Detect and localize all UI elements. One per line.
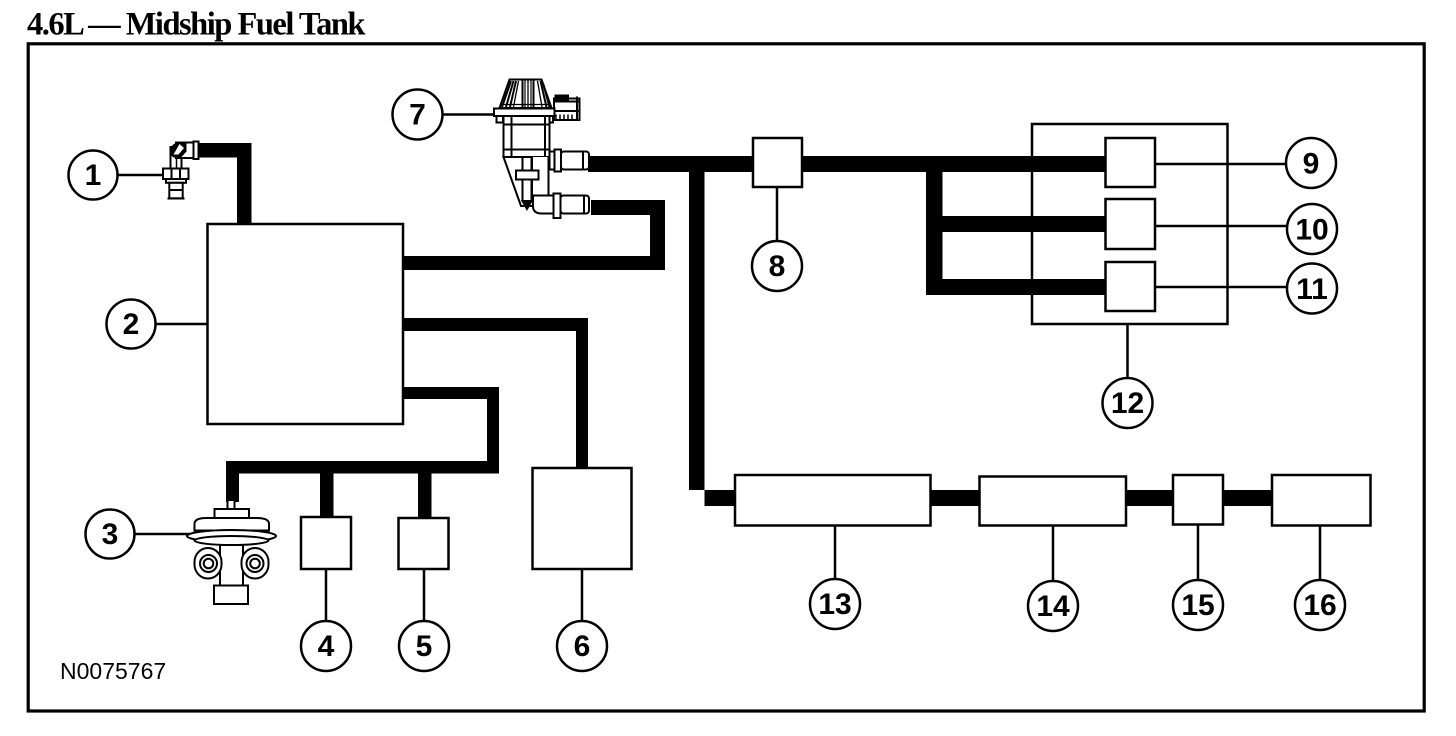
callout circle 2 xyxy=(107,300,156,349)
fuel tank 2 xyxy=(208,224,404,424)
callout circle 13 xyxy=(810,579,860,629)
callout circle 6 xyxy=(557,621,607,671)
hose: drop to component 3 xyxy=(226,461,239,502)
svg-text:7: 7 xyxy=(409,99,426,132)
callout circle 4 xyxy=(301,621,351,671)
callout circle 9 xyxy=(1286,138,1336,188)
hose: box 14 to box 15 xyxy=(1125,490,1174,506)
leader line 2 xyxy=(155,323,207,326)
callout circle 5 xyxy=(399,621,449,671)
hose: canister vent valve upper outlet main line to box 9 xyxy=(588,156,1106,172)
leader line 4 xyxy=(325,569,328,622)
callout circle 3 xyxy=(86,510,135,559)
box 6 xyxy=(533,468,632,569)
svg-text:6: 6 xyxy=(574,630,591,663)
svg-text:15: 15 xyxy=(1181,589,1214,622)
svg-text:1: 1 xyxy=(85,159,102,192)
hose: drop to box 5 xyxy=(418,470,432,518)
box 10 xyxy=(1106,199,1156,249)
svg-text:5: 5 xyxy=(416,630,433,663)
hose: box 15 to box 16 xyxy=(1222,490,1273,506)
box 5 xyxy=(399,518,449,569)
callout circle 7 xyxy=(393,90,443,140)
callout circle 11 xyxy=(1287,264,1337,314)
hose: feed to box 11 xyxy=(926,279,1106,295)
callout circle 16 xyxy=(1295,580,1345,630)
svg-text:9: 9 xyxy=(1303,148,1320,181)
svg-text:12: 12 xyxy=(1111,387,1144,420)
callout circle 15 xyxy=(1173,580,1223,630)
callout circle 14 xyxy=(1028,581,1078,631)
hose: feed to box 10 xyxy=(926,216,1106,232)
svg-text:14: 14 xyxy=(1036,590,1070,623)
svg-text:16: 16 xyxy=(1303,589,1336,622)
canister vent valve component 7 xyxy=(494,80,589,219)
hose: canister vent valve lower outlet to fuel tank right side xyxy=(403,200,666,270)
svg-text:8: 8 xyxy=(769,250,786,283)
leader line 15 xyxy=(1197,525,1200,581)
leader line 9 xyxy=(1155,163,1286,166)
box 15 xyxy=(1173,475,1223,525)
leader line 7 xyxy=(442,113,495,116)
leader line 11 xyxy=(1155,286,1287,289)
leader line 13 xyxy=(834,526,837,580)
hose: fuel tank right to box 6 xyxy=(403,318,589,469)
elbow fitting component 1 xyxy=(163,142,199,199)
box 9 xyxy=(1106,138,1156,187)
box 8 xyxy=(753,138,802,187)
hose: box 13 to box 14 xyxy=(929,490,981,506)
hose: vertical drop at right assembly xyxy=(926,156,943,295)
leader line 5 xyxy=(423,569,426,621)
svg-text:4.6L — Midship Fuel Tank: 4.6L — Midship Fuel Tank xyxy=(27,6,366,42)
svg-text:10: 10 xyxy=(1295,214,1328,247)
leader line 8 xyxy=(776,187,779,240)
svg-text:13: 13 xyxy=(818,588,851,621)
hose: main line vertical drop to bottom row xyxy=(689,156,736,506)
box 13 xyxy=(735,475,931,526)
leader line 6 xyxy=(581,569,584,621)
fuel vapor valve component 3 xyxy=(187,500,276,604)
hose: fuel tank right lower to manifold line xyxy=(403,387,500,473)
hose: elbow fitting 1 to fuel tank top xyxy=(196,143,252,224)
box 16 xyxy=(1272,475,1371,526)
leader line 1 xyxy=(117,174,163,177)
evap assembly outline 12 xyxy=(1032,124,1228,324)
callout circle 8 xyxy=(752,241,802,291)
svg-text:3: 3 xyxy=(102,518,119,551)
callout circle 10 xyxy=(1287,204,1337,254)
leader line 14 xyxy=(1052,526,1055,582)
callout circle 1 xyxy=(69,151,118,200)
svg-text:N0075767: N0075767 xyxy=(60,658,166,684)
leader line 3 xyxy=(134,533,190,536)
leader line 16 xyxy=(1319,526,1322,581)
box 11 xyxy=(1106,262,1156,311)
callout circle 12 xyxy=(1103,378,1153,428)
box 14 xyxy=(980,477,1127,526)
hose: drop to box 4 xyxy=(320,470,334,517)
svg-text:11: 11 xyxy=(1296,273,1328,306)
leader line 10 xyxy=(1155,225,1287,228)
svg-text:4: 4 xyxy=(318,630,335,663)
svg-text:2: 2 xyxy=(123,308,140,341)
box 4 xyxy=(301,517,351,569)
leader line 12 xyxy=(1126,324,1129,378)
hose: lower manifold horizontal line xyxy=(231,461,499,474)
